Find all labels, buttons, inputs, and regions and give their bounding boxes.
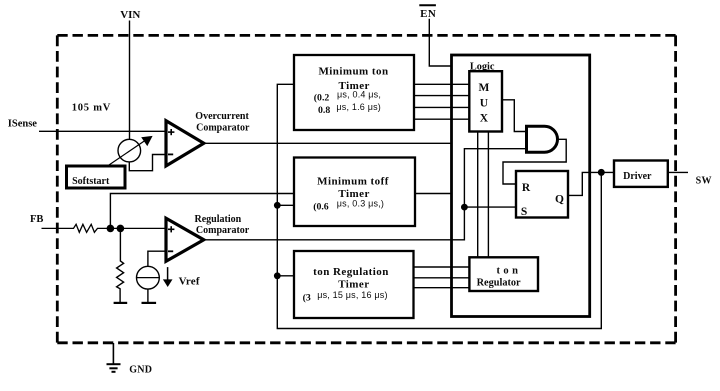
svg-text:Regulation: Regulation (195, 214, 242, 225)
svg-text:SW: SW (696, 176, 712, 187)
svg-text:t o n: t o n (496, 265, 518, 276)
svg-text:Overcurrent: Overcurrent (195, 111, 249, 122)
svg-text:(0.6: (0.6 (313, 201, 329, 212)
svg-text:GND: GND (129, 364, 152, 375)
svg-text:(0.2: (0.2 (314, 92, 330, 103)
svg-text:M: M (478, 82, 489, 94)
svg-text:U: U (480, 98, 489, 110)
svg-text:S: S (521, 206, 527, 218)
svg-text:Vref: Vref (179, 275, 200, 287)
svg-text:Regulator: Regulator (477, 278, 521, 289)
svg-text:Q: Q (555, 194, 564, 206)
svg-text:Softstart: Softstart (72, 176, 110, 187)
svg-text:Comparator: Comparator (196, 122, 250, 133)
svg-text:μs, 0.3 μs,): μs, 0.3 μs,) (337, 199, 384, 209)
svg-text:ton Regulation: ton Regulation (313, 266, 389, 278)
svg-text:μs, 0.4 μs,: μs, 0.4 μs, (337, 90, 381, 100)
svg-text:X: X (480, 113, 489, 125)
svg-text:VIN: VIN (120, 9, 140, 21)
svg-text:μs, 1.6 μs): μs, 1.6 μs) (336, 102, 381, 112)
svg-text:105 mV: 105 mV (72, 103, 112, 114)
svg-text:Timer: Timer (338, 278, 369, 290)
svg-text:Comparator: Comparator (196, 225, 250, 236)
svg-text:FB: FB (30, 214, 43, 225)
svg-text:R: R (522, 182, 531, 194)
svg-text:(3: (3 (303, 292, 311, 303)
svg-text:μs, 15 μs, 16 μs): μs, 15 μs, 16 μs) (317, 290, 387, 300)
svg-text:EN: EN (420, 8, 436, 20)
svg-text:Minimum toff: Minimum toff (317, 175, 389, 187)
svg-text:Minimum ton: Minimum ton (318, 66, 388, 78)
svg-text:ISense: ISense (8, 119, 38, 130)
svg-text:0.8: 0.8 (318, 105, 330, 116)
svg-text:Driver: Driver (623, 171, 652, 182)
